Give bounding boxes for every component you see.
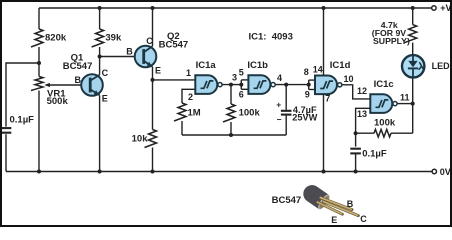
- resistor 10k: [145, 130, 157, 148]
- wire Q1 emitter to 0V: [99, 95, 101, 171]
- wire IC1d out to IC1c pin12: [342, 85, 371, 99]
- capacitor 0.1uF right: [350, 148, 361, 150]
- wire top +V rail: [39, 7, 432, 9]
- node IC1d inputs: [307, 83, 311, 87]
- node pin7 ground: [322, 170, 326, 174]
- svg-text:10: 10: [344, 74, 354, 84]
- svg-text:7: 7: [325, 93, 330, 103]
- wire Q2 emitter down: [152, 67, 154, 130]
- resistor 820k: [38, 8, 40, 29]
- svg-text:9: 9: [305, 90, 310, 100]
- svg-text:5: 5: [239, 68, 244, 78]
- svg-text:6: 6: [239, 90, 244, 100]
- svg-text:IC1: 4093: IC1: 4093: [249, 31, 293, 42]
- node pin11 junction: [411, 102, 415, 106]
- resistor 100k right: [356, 132, 374, 134]
- wire IC1c out pin11: [397, 103, 413, 105]
- op IC1d gate: [315, 76, 337, 95]
- node Q2 collector rail: [151, 6, 155, 10]
- svg-text:2: 2: [188, 92, 193, 102]
- wire IC1d input bar: [308, 80, 310, 89]
- op IC1b gate: [248, 75, 270, 94]
- node top rail 39k: [98, 6, 102, 10]
- svg-text:100k: 100k: [374, 118, 396, 129]
- node Q1 collector / 39k / Q2 base: [98, 55, 102, 59]
- svg-text:E: E: [155, 65, 161, 75]
- svg-text:11: 11: [400, 93, 410, 103]
- svg-text:IC1d: IC1d: [330, 60, 351, 71]
- svg-text:C: C: [360, 214, 367, 224]
- svg-text:E: E: [102, 94, 108, 104]
- transistor Q1 BC547: [81, 74, 103, 96]
- wire LED cathode vertical: [412, 78, 414, 133]
- svg-text:C: C: [102, 68, 109, 78]
- svg-text:10k: 10k: [132, 133, 149, 144]
- wire bottom 0V rail: [6, 171, 432, 173]
- node pin14 rail: [322, 6, 326, 10]
- svg-text:500k: 500k: [47, 96, 69, 107]
- node cap-ground: [354, 170, 358, 174]
- svg-text:12: 12: [357, 86, 367, 96]
- svg-text:3: 3: [232, 72, 237, 82]
- svg-text:BC547: BC547: [63, 61, 93, 72]
- node 4.7k rail: [411, 6, 415, 10]
- svg-text:−: −: [277, 115, 282, 125]
- svg-text:13: 13: [357, 109, 367, 119]
- node 820k/VR1 junction: [37, 61, 41, 65]
- node Q1 emitter-ground: [98, 170, 102, 174]
- svg-text:39k: 39k: [105, 32, 122, 43]
- node IC1b inputs: [239, 83, 243, 87]
- wire feedback tie: [182, 134, 286, 136]
- terminal 0V: [432, 169, 436, 173]
- node 10k-ground: [151, 170, 155, 174]
- wire IC1a pin1: [153, 79, 196, 81]
- op IC1a gate: [195, 75, 217, 94]
- wire IC1d pin7 to 0V: [323, 94, 325, 171]
- wire IC1b input bar: [240, 80, 242, 89]
- resistor 100k left: [230, 85, 232, 104]
- svg-text:+V: +V: [440, 3, 451, 13]
- svg-text:IC1c: IC1c: [374, 79, 394, 90]
- svg-text:IC1a: IC1a: [196, 60, 217, 71]
- svg-text:+: +: [276, 99, 281, 109]
- svg-text:BC547: BC547: [272, 195, 302, 206]
- svg-text:1: 1: [186, 68, 191, 78]
- svg-text:4: 4: [277, 73, 282, 83]
- terminal +V: [432, 6, 436, 10]
- svg-text:8: 8: [304, 67, 309, 77]
- node VR1-ground: [37, 170, 41, 174]
- resistor 4.7k: [412, 8, 414, 25]
- wire Q1 collector: [99, 57, 101, 75]
- svg-text:0.1µF: 0.1µF: [10, 115, 35, 126]
- node tie 100k: [229, 133, 233, 137]
- wire IC1a out node3: [222, 84, 241, 86]
- wire IC1d pin14 to +V: [323, 8, 325, 76]
- svg-text:25VW: 25VW: [292, 112, 317, 122]
- svg-text:B: B: [75, 75, 82, 85]
- node Q2 emitter / IC1a pin1: [151, 78, 155, 82]
- wire IC1a pin2 to 1M: [182, 89, 195, 103]
- svg-text:IC1b: IC1b: [247, 60, 268, 71]
- svg-text:820k: 820k: [45, 32, 67, 43]
- node 3: [229, 83, 233, 87]
- transistor package BC547 pinout: [300, 182, 358, 216]
- wire 39k to Q2 base: [100, 56, 144, 58]
- svg-text:SUPPLY): SUPPLY): [373, 36, 410, 46]
- svg-text:100k: 100k: [239, 107, 261, 118]
- wire Q2 collector to +V: [152, 8, 154, 46]
- svg-text:1M: 1M: [188, 107, 201, 118]
- svg-text:LED: LED: [432, 61, 451, 71]
- wire IC1c pin13: [356, 108, 371, 146]
- transistor Q2 BC547: [135, 46, 157, 68]
- svg-text:B: B: [126, 47, 133, 57]
- svg-text:14: 14: [313, 64, 323, 74]
- potentiometer VR1 500k: [38, 63, 40, 77]
- svg-text:0.1µF: 0.1µF: [362, 148, 387, 159]
- resistor 39k: [99, 8, 101, 29]
- svg-text:B: B: [347, 199, 354, 209]
- op IC1c gate: [370, 94, 392, 113]
- wire IC1b out node4: [275, 84, 309, 86]
- node 4: [284, 83, 288, 87]
- svg-text:E: E: [331, 215, 337, 225]
- wire left branch: [6, 63, 39, 127]
- led LED: [402, 55, 424, 77]
- wire Q1 base from VR1 wiper: [50, 84, 91, 86]
- capacitor 0.1uF left: [1, 127, 12, 129]
- node pin13 100k: [354, 131, 358, 135]
- svg-text:0V: 0V: [440, 167, 451, 177]
- resistor 1M: [174, 103, 186, 121]
- svg-text:BC547: BC547: [159, 40, 189, 51]
- capacitor 4.7uF 25VW: [285, 85, 287, 110]
